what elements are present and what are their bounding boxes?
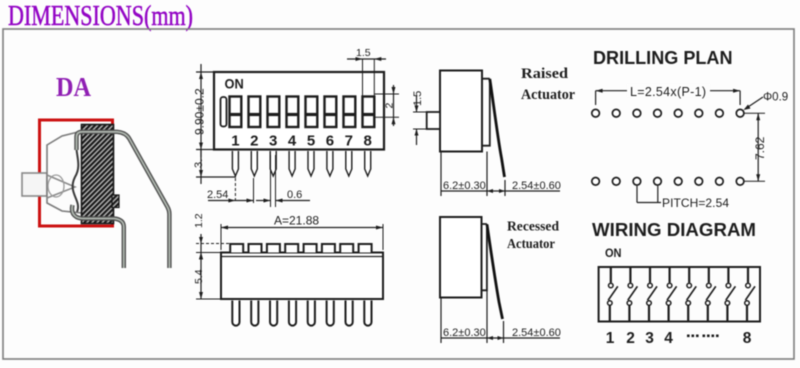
front view position number 7 — [345, 133, 353, 150]
DRILLING PLAN title — [593, 47, 733, 68]
dim A=21.88 — [221, 214, 383, 251]
svg-text:WIRING DIAGRAM: WIRING DIAGRAM — [592, 219, 756, 240]
svg-text:1: 1 — [231, 133, 239, 150]
front view position number 1 — [231, 133, 239, 150]
wiring switch SW6 — [706, 267, 716, 322]
wiring ON label — [605, 246, 622, 260]
wiring number 8 — [743, 330, 752, 347]
front view switch S2 — [249, 97, 261, 128]
wiring box — [599, 267, 760, 322]
svg-text:2.54±0.60: 2.54±0.60 — [512, 327, 561, 339]
dim 2.54 — [207, 178, 254, 203]
svg-text:4: 4 — [664, 330, 673, 347]
wiring switch SW4 — [666, 267, 676, 322]
wiring switch SW2 — [627, 267, 637, 322]
side elevation actuator bump 6 — [322, 244, 335, 253]
front view switch S1 — [230, 97, 242, 128]
wiring number 1 — [606, 330, 615, 347]
drill hole top 6 — [695, 109, 703, 117]
svg-text:2: 2 — [384, 103, 396, 109]
front view switch S4 — [287, 97, 299, 128]
drill hole bottom 3 — [633, 178, 641, 186]
wiring number 3 — [645, 330, 654, 347]
svg-text:0.6: 0.6 — [287, 189, 302, 201]
drill hole top 7 — [716, 109, 724, 117]
raised actuator view body — [440, 71, 490, 152]
svg-text:5.4: 5.4 — [193, 269, 205, 284]
svg-text:DRILLING PLAN: DRILLING PLAN — [593, 47, 733, 68]
side elevation actuator bump 5 — [304, 244, 317, 253]
front view pin 2 — [251, 151, 257, 176]
wiring switch SW3 — [647, 267, 657, 322]
dim 2 right — [374, 85, 399, 126]
front view position number 3 — [269, 133, 277, 150]
wiring switch SW8 — [745, 267, 755, 322]
front view pin 8 — [365, 151, 371, 176]
drill hole top 8 — [736, 109, 744, 117]
side elevation pin 5 — [308, 301, 315, 326]
drill hole bottom 8 — [736, 178, 744, 186]
svg-text:6.2±0.30: 6.2±0.30 — [443, 327, 486, 339]
svg-text:6.2±0.30: 6.2±0.30 — [443, 180, 486, 192]
svg-text:3.: 3. — [193, 159, 205, 168]
dim 3 — [193, 150, 236, 185]
side elevation body — [221, 253, 383, 300]
photo view housing profile — [47, 131, 82, 213]
front view position number 4 — [288, 133, 297, 150]
side elevation pin 8 — [364, 301, 371, 326]
svg-text:1: 1 — [606, 330, 615, 347]
front view position number 5 — [307, 133, 315, 150]
svg-text:5: 5 — [307, 133, 315, 150]
svg-text:9.90±0.2: 9.90±0.2 — [193, 88, 207, 135]
svg-text:ON: ON — [605, 246, 622, 260]
svg-text:Φ0.9: Φ0.9 — [763, 92, 788, 104]
raised actuator pin — [490, 79, 505, 177]
front view pin 7 — [346, 151, 352, 176]
drill hole bottom 2 — [612, 178, 620, 186]
front view position number 6 — [326, 133, 334, 150]
side elevation pin 3 — [270, 301, 277, 326]
svg-text:Actuator: Actuator — [507, 237, 555, 252]
side elevation actuator bump 8 — [359, 244, 372, 253]
svg-text:4: 4 — [288, 133, 297, 150]
title DIMENSIONS(mm) — [8, 1, 193, 32]
drill hole top 1 — [592, 109, 600, 117]
front view ON label — [225, 76, 244, 91]
svg-text:7: 7 — [345, 133, 353, 150]
side elevation pin 4 — [289, 301, 296, 326]
svg-text:DIMENSIONS(mm): DIMENSIONS(mm) — [8, 1, 193, 32]
recessed view dims 6.2±0.30 / 2.54±0.60 — [441, 290, 561, 343]
recessed actuator pin — [487, 225, 503, 320]
raised view dims 6.2±0.30 / 2.54±0.60 — [441, 152, 561, 197]
side elevation actuator bump 2 — [249, 244, 262, 253]
dim 7.62 — [744, 113, 767, 181]
svg-text:DA: DA — [56, 72, 91, 102]
svg-text:3: 3 — [269, 133, 277, 150]
front view pin 6 — [327, 151, 333, 176]
dim L=2.54x(P-1) — [596, 84, 741, 105]
svg-text:7.62: 7.62 — [753, 136, 767, 160]
svg-text:PITCH=2.54: PITCH=2.54 — [662, 196, 729, 210]
svg-text:ON: ON — [225, 76, 244, 91]
side elevation actuator bump 4 — [285, 244, 298, 253]
drill hole top 2 — [612, 109, 620, 117]
drill hole top 4 — [654, 109, 662, 117]
side elevation pin 6 — [327, 301, 334, 326]
side elevation pin 1 — [232, 301, 239, 326]
dim 5.4 — [193, 253, 221, 300]
wiring switch SW1 — [608, 267, 618, 322]
front view switch S6 — [325, 97, 337, 128]
front view pin 4 — [289, 151, 295, 176]
svg-text:1.5: 1.5 — [412, 91, 424, 106]
side elevation actuator bump 1 — [230, 244, 243, 253]
svg-text:A=21.88: A=21.88 — [274, 214, 319, 228]
dim PITCH=2.54 — [637, 186, 729, 210]
photo view hatched switch body — [82, 125, 120, 224]
wiring number 2 — [626, 330, 635, 347]
photo view actuator tab — [22, 173, 47, 196]
wiring switch SW5 — [686, 267, 696, 322]
photo view red highlight box — [40, 120, 113, 226]
svg-text:2: 2 — [250, 133, 258, 150]
drill hole bottom 6 — [695, 178, 703, 186]
dim 1.5 top — [347, 47, 386, 120]
side elevation pin 2 — [251, 301, 258, 326]
dim 9.90±0.2 — [193, 64, 215, 157]
dim 1.2 — [193, 213, 232, 259]
drill hole bottom 1 — [592, 178, 600, 186]
dim 0.6 — [256, 155, 310, 207]
svg-text:L=2.54x(P-1): L=2.54x(P-1) — [630, 85, 706, 99]
photo view bent pin wire 1 — [77, 132, 170, 268]
front view switch S8 — [363, 97, 375, 128]
svg-text:1.5: 1.5 — [356, 47, 371, 59]
drill hole bottom 5 — [674, 178, 682, 186]
wiring number 4 — [664, 330, 673, 347]
side elevation pin 7 — [346, 301, 353, 326]
drill hole top 3 — [633, 109, 641, 117]
svg-text:2: 2 — [626, 330, 635, 347]
svg-text:8: 8 — [364, 133, 372, 150]
series label DA — [56, 72, 91, 102]
front view left slot — [221, 97, 227, 127]
svg-text:1.2: 1.2 — [193, 213, 205, 228]
front view pin 1 — [232, 151, 238, 176]
svg-text:6: 6 — [326, 133, 334, 150]
side elevation actuator bump 7 — [340, 244, 353, 253]
front view switch S7 — [344, 97, 356, 128]
svg-text:2.54±0.60: 2.54±0.60 — [512, 180, 561, 192]
svg-text:Raised: Raised — [521, 66, 569, 82]
svg-text:Recessed: Recessed — [507, 220, 559, 235]
front view position number 8 — [364, 133, 372, 150]
dim 1.5 raised — [412, 91, 427, 145]
side elevation actuator bump 3 — [267, 244, 280, 253]
svg-text:2.54: 2.54 — [207, 189, 228, 201]
recessed actuator view body — [440, 217, 487, 298]
drill hole bottom 4 — [654, 178, 662, 186]
label Raised Actuator — [521, 66, 575, 103]
svg-text:Actuator: Actuator — [521, 87, 575, 103]
photo view bent pin wire 2 — [72, 205, 124, 268]
raised actuator bump — [427, 112, 440, 129]
front view position number 2 — [250, 133, 258, 150]
label Recessed Actuator — [507, 220, 559, 253]
drill hole bottom 7 — [716, 178, 724, 186]
WIRING DIAGRAM title — [592, 219, 756, 240]
wiring switch SW7 — [725, 267, 735, 322]
svg-text:8: 8 — [743, 330, 752, 347]
front view DIP switch body — [214, 72, 384, 150]
front view pin 3 — [270, 151, 276, 176]
front view pin 5 — [308, 151, 314, 176]
front view switch S5 — [306, 97, 318, 128]
svg-text:3: 3 — [645, 330, 654, 347]
front view switch S3 — [268, 97, 280, 128]
dim Φ0.9 — [744, 92, 789, 111]
photo view contact clip curve — [73, 132, 79, 212]
wiring ellipsis dots — [687, 335, 719, 338]
drill hole top 5 — [674, 109, 682, 117]
